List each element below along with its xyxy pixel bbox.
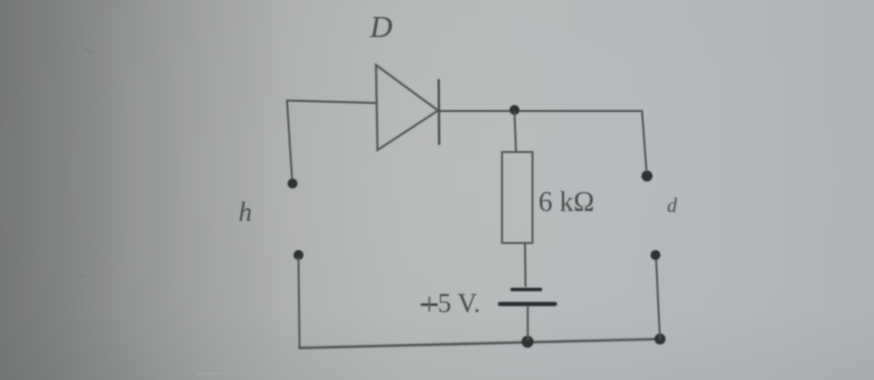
svg-text:h: h: [239, 197, 253, 227]
node h lower terminal dot: [294, 250, 304, 260]
wire top-left horizontal: [287, 101, 376, 104]
svg-text:d: d: [667, 195, 678, 217]
diode D cathode bar: [438, 80, 441, 144]
node d upper terminal dot: [642, 171, 653, 182]
junction bottom-center dot: [522, 336, 534, 348]
speck left-middle: [77, 274, 86, 277]
node h upper terminal dot: [288, 179, 298, 189]
svg-text:6 kΩ: 6 kΩ: [539, 187, 595, 218]
diode D triangle: [376, 65, 438, 150]
wire junction to resistor: [515, 112, 517, 152]
svg-text:D: D: [369, 9, 392, 44]
wire resistor to battery: [524, 243, 527, 286]
battery V1 long plate: [500, 302, 555, 306]
wire battery to bottom junction: [527, 306, 529, 340]
resistor R 6k box: [502, 152, 533, 243]
wire top-right horizontal: [440, 110, 642, 112]
svg-text:5 V.: 5 V.: [438, 288, 481, 318]
label +5 V. (battery value) plus sign: [421, 303, 438, 306]
wire bottom horizontal: [300, 339, 661, 348]
smudge bottom-center: [196, 373, 262, 374]
node d lower terminal dot: [651, 250, 661, 260]
wire right lower vertical: [656, 258, 660, 339]
battery V1 short plate: [512, 288, 541, 291]
junction bottom-right corner dot: [655, 334, 666, 345]
wire left upper vertical: [287, 101, 292, 179]
speck top-left: [84, 49, 93, 52]
wire right upper vertical: [642, 111, 647, 171]
junction top dot: [510, 105, 520, 115]
wire left lower vertical: [299, 258, 300, 348]
